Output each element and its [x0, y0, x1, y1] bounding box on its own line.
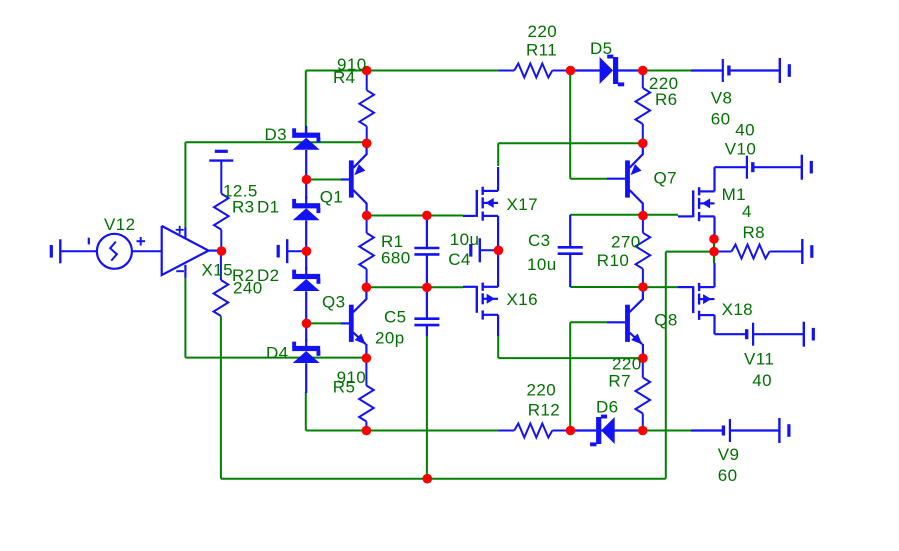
- svg-text:C4: C4: [448, 250, 471, 269]
- svg-text:D1: D1: [257, 198, 280, 217]
- svg-text:V11: V11: [744, 350, 774, 369]
- svg-text:R6: R6: [655, 90, 678, 109]
- svg-text:C5: C5: [384, 308, 407, 327]
- svg-text:V12: V12: [104, 215, 135, 234]
- svg-text:60: 60: [718, 466, 738, 485]
- svg-text:V8: V8: [711, 89, 733, 108]
- svg-text:R3: R3: [232, 198, 255, 217]
- svg-text:10u: 10u: [527, 255, 557, 274]
- svg-text:D4: D4: [266, 344, 289, 363]
- svg-text:R12: R12: [528, 400, 560, 419]
- svg-text:40: 40: [735, 121, 755, 140]
- svg-text:220: 220: [528, 22, 558, 41]
- svg-text:R10: R10: [597, 251, 629, 270]
- svg-text:X18: X18: [722, 300, 753, 319]
- svg-text:X15: X15: [202, 261, 233, 280]
- svg-text:240: 240: [233, 279, 263, 298]
- svg-text:4: 4: [742, 202, 752, 221]
- svg-text:C3: C3: [528, 231, 551, 250]
- svg-text:V9: V9: [718, 445, 740, 464]
- svg-text:Q3: Q3: [322, 293, 345, 312]
- svg-text:R11: R11: [526, 41, 557, 60]
- svg-text:X17: X17: [507, 195, 538, 214]
- svg-text:220: 220: [527, 381, 557, 400]
- svg-text:Q1: Q1: [320, 188, 343, 207]
- svg-text:V10: V10: [725, 140, 756, 159]
- svg-text:D5: D5: [590, 39, 613, 58]
- svg-text:R4: R4: [333, 68, 356, 87]
- svg-text:R8: R8: [743, 223, 766, 242]
- svg-text:270: 270: [611, 233, 641, 252]
- svg-text:20p: 20p: [375, 329, 405, 348]
- svg-text:D3: D3: [265, 125, 288, 144]
- svg-text:40: 40: [752, 371, 772, 390]
- svg-text:Q8: Q8: [654, 311, 677, 330]
- svg-text:R7: R7: [608, 371, 631, 390]
- svg-text:R5: R5: [333, 377, 356, 396]
- svg-text:680: 680: [381, 249, 411, 268]
- svg-text:D6: D6: [596, 398, 619, 417]
- svg-text:10u: 10u: [450, 230, 480, 249]
- svg-text:60: 60: [711, 109, 731, 128]
- svg-text:X16: X16: [507, 290, 538, 309]
- svg-text:Q7: Q7: [654, 169, 677, 188]
